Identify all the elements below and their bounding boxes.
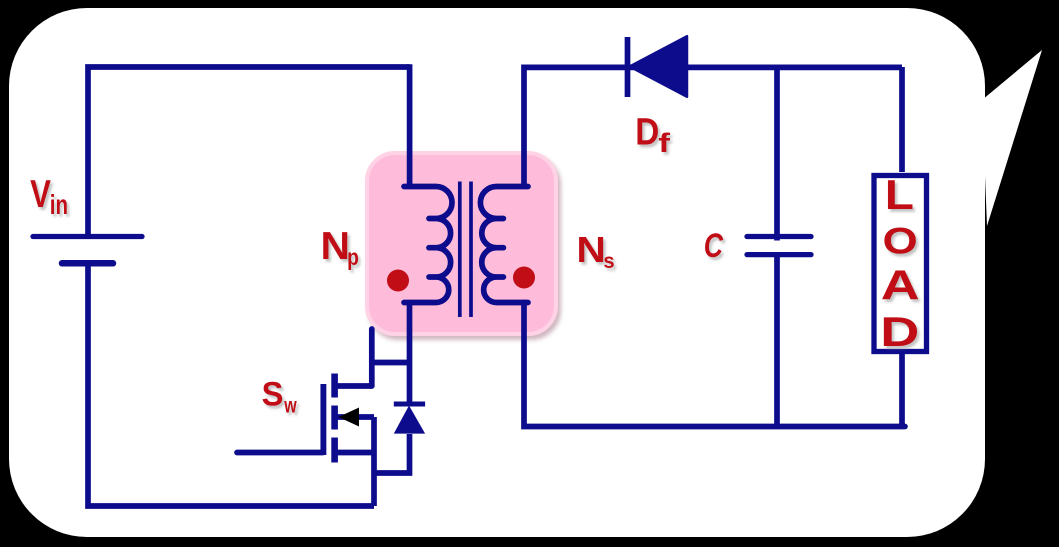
svg-text:V: V xyxy=(30,173,51,216)
svg-text:in: in xyxy=(50,190,68,221)
svg-text:p: p xyxy=(347,244,359,270)
svg-text:D: D xyxy=(880,309,919,355)
svg-text:S: S xyxy=(262,376,284,414)
svg-text:D: D xyxy=(635,110,659,152)
svg-text:w: w xyxy=(283,393,297,417)
svg-text:N: N xyxy=(321,225,351,268)
svg-text:C: C xyxy=(704,226,724,265)
svg-text:A: A xyxy=(881,262,920,309)
svg-text:O: O xyxy=(883,219,918,261)
svg-text:L: L xyxy=(885,173,914,218)
svg-text:N: N xyxy=(576,230,606,271)
svg-text:f: f xyxy=(658,128,670,158)
svg-text:s: s xyxy=(603,249,614,272)
